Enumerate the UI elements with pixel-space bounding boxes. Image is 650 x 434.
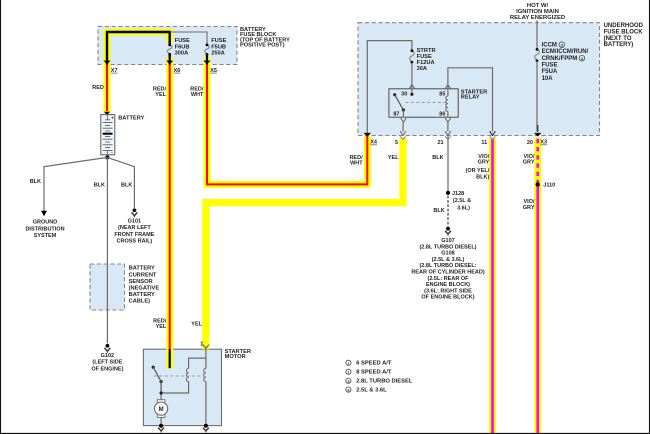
svg-text:300A: 300A <box>175 51 189 57</box>
wire fuse F5UB bottom black stub <box>206 55 208 65</box>
svg-text:X6: X6 <box>174 68 181 74</box>
svg-text:J128: J128 <box>452 191 464 197</box>
wire VIO/GRY stripe J110 down <box>536 183 539 434</box>
legend note 3: 2.8L turbo diesel <box>346 378 351 383</box>
svg-text:(OR YEL/: (OR YEL/ <box>466 168 490 174</box>
svg-text:REAR OF CYLINDER HEAD): REAR OF CYLINDER HEAD) <box>411 270 485 276</box>
battery terminal cap <box>104 112 110 115</box>
svg-text:BLK: BLK <box>30 179 41 185</box>
svg-text:2: 2 <box>347 371 349 375</box>
pin 85 chevron <box>445 85 451 89</box>
svg-text:J110: J110 <box>543 182 555 188</box>
ground G107 <box>446 227 450 231</box>
svg-text:OF ENGINE): OF ENGINE) <box>91 366 123 372</box>
svg-text:30: 30 <box>401 91 407 97</box>
legend note 4: 2.5L & 3.6L <box>346 387 351 392</box>
svg-text:1: 1 <box>347 362 349 366</box>
svg-text:BATTERY: BATTERY <box>118 115 144 121</box>
fuse F5UA 10A <box>535 49 540 59</box>
svg-text:X3: X3 <box>540 140 547 146</box>
svg-text:(2.5L &: (2.5L & <box>453 198 471 204</box>
svg-text:F5UA: F5UA <box>542 69 558 75</box>
svg-text:20: 20 <box>527 140 533 146</box>
pin 30 chevron <box>409 85 415 89</box>
wire 85 to terminal 11 <box>448 68 493 132</box>
pin 86 chevron <box>445 118 451 122</box>
relay box <box>389 89 458 117</box>
svg-text:BATTERY: BATTERY <box>129 266 155 272</box>
svg-text:YEL: YEL <box>156 324 167 330</box>
svg-text:X5: X5 <box>210 68 217 74</box>
svg-text:SENSOR: SENSOR <box>129 279 153 285</box>
svg-text:10A: 10A <box>542 76 554 82</box>
svg-text:250A: 250A <box>211 51 225 57</box>
terminal X5 arrow <box>204 61 211 65</box>
svg-text:1: 1 <box>200 341 203 347</box>
svg-text:(NEAR LEFT: (NEAR LEFT <box>118 225 151 231</box>
svg-text:30A: 30A <box>417 66 427 72</box>
wire BLK battery to sensor to G102 <box>106 157 108 343</box>
terminal 11 lower chevron <box>490 136 496 139</box>
svg-text:BLK: BLK <box>433 208 444 214</box>
svg-text:86: 86 <box>439 112 445 118</box>
terminal X6 arrow <box>166 61 173 65</box>
svg-text:BATTERY): BATTERY) <box>604 42 634 48</box>
ground G101 <box>133 208 137 212</box>
svg-text:GROUND: GROUND <box>33 220 57 226</box>
svg-text:X4: X4 <box>370 140 378 146</box>
svg-text:YEL: YEL <box>191 322 202 328</box>
svg-text:(2.5L & 3.6L): (2.5L & 3.6L) <box>432 257 465 263</box>
starter motor box <box>143 349 221 425</box>
coil hold-in <box>204 368 206 381</box>
svg-text:CROSS RAIL): CROSS RAIL) <box>117 238 153 244</box>
wire fuse to X3 <box>536 61 538 132</box>
svg-text:(2.5L: REAR OF: (2.5L: REAR OF <box>428 276 470 282</box>
fuse F12UA 30A <box>410 51 415 61</box>
svg-text:F6UB: F6UB <box>175 44 190 50</box>
svg-text:8 SPEED A/T: 8 SPEED A/T <box>356 370 392 376</box>
wire fuse F5UB top thin feed <box>170 32 207 44</box>
terminal X7 arrow <box>104 61 111 65</box>
node pin 30 <box>411 89 413 95</box>
svg-text:ENGINE BLOCK): ENGINE BLOCK) <box>426 282 470 288</box>
ground starter motor right <box>204 424 208 428</box>
svg-text:G101: G101 <box>128 219 141 225</box>
svg-text:FUSE: FUSE <box>175 38 190 44</box>
svg-text:G102: G102 <box>101 353 114 359</box>
wire VIO/GRY terminal 20 band <box>534 138 541 434</box>
svg-text:FUSE: FUSE <box>211 38 226 44</box>
node J128 <box>446 191 450 195</box>
wire thick black in battery fuse block <box>107 32 170 65</box>
legend note 2: 8 speed A/T <box>346 369 351 374</box>
svg-text:BLK: BLK <box>432 155 443 161</box>
svg-text:5: 5 <box>395 140 398 146</box>
svg-text:3: 3 <box>347 380 349 384</box>
fuse F5UB 250A <box>205 45 210 53</box>
wire RED/YEL black stub in starter box <box>169 349 171 368</box>
svg-text:CURRENT: CURRENT <box>129 272 157 278</box>
svg-text:RELAY: RELAY <box>461 95 480 101</box>
svg-text:2.8L TURBO DIESEL: 2.8L TURBO DIESEL <box>356 379 413 385</box>
svg-text:GRY: GRY <box>523 160 535 166</box>
terminal 5 chevron <box>400 131 406 135</box>
terminal 21 chevron <box>445 131 451 135</box>
terminal 5 lower chevron <box>400 136 406 139</box>
legend note 1: 6 speed A/T <box>346 360 351 365</box>
wire BLK to ground distribution <box>44 157 107 211</box>
svg-text:BATTERY: BATTERY <box>129 292 155 298</box>
svg-text:2.5L & 3.6L: 2.5L & 3.6L <box>356 388 387 394</box>
svg-text:BLK: BLK <box>94 183 105 189</box>
wire BLK terminal 21 down <box>447 136 449 192</box>
svg-text:FRONT FRAME: FRONT FRAME <box>114 232 154 238</box>
svg-text:RED: RED <box>92 85 104 91</box>
battery B1 <box>101 115 115 155</box>
svg-text:ICCM: ICCM <box>542 42 557 48</box>
svg-text:POSITIVE POST): POSITIVE POST) <box>240 43 285 49</box>
starter feed arrow into box <box>203 345 209 349</box>
svg-text:STRTR: STRTR <box>417 48 436 54</box>
wire BLK to G101 <box>107 157 134 208</box>
wire YEL highlight band <box>206 138 403 349</box>
coil relay <box>447 89 449 118</box>
svg-text:CABLE): CABLE) <box>129 299 151 305</box>
svg-text:YEL: YEL <box>155 92 166 98</box>
svg-text:X7: X7 <box>111 68 118 74</box>
svg-text:FUSE BLOCK: FUSE BLOCK <box>604 30 644 36</box>
svg-text:(NEXT TO: (NEXT TO <box>604 36 632 42</box>
motor M <box>157 400 165 403</box>
wire VIO/GRY stripe terminal 11 <box>491 139 494 434</box>
svg-text:6 SPEED A/T: 6 SPEED A/T <box>356 361 392 367</box>
svg-text:RELAY ENERGIZED: RELAY ENERGIZED <box>510 15 565 21</box>
dashed relay link <box>406 101 447 103</box>
svg-text:UNDERHOOD: UNDERHOOD <box>604 23 644 29</box>
wire fuse to relay 30 <box>411 62 413 88</box>
svg-text:YEL: YEL <box>388 155 399 161</box>
svg-text:FUSE: FUSE <box>542 63 558 69</box>
wire VIO/GRY terminal 11 band <box>489 138 496 434</box>
svg-text:OF ENGINE BLOCK): OF ENGINE BLOCK) <box>421 295 474 301</box>
wire 86 to terminal 21 <box>447 122 449 132</box>
terminal 21 lower chevron <box>445 136 451 139</box>
coil pull-in <box>186 368 188 381</box>
svg-text:GRY: GRY <box>478 160 490 166</box>
svg-text:F12UA: F12UA <box>417 60 435 66</box>
battery current sensor box <box>90 264 125 310</box>
wire BLK dashed to G107 <box>447 196 449 227</box>
svg-text:WHT: WHT <box>191 92 204 98</box>
svg-text:11: 11 <box>481 140 487 146</box>
arrow ground distribution <box>41 211 47 216</box>
battery fuse block box <box>98 27 237 65</box>
svg-text:FUSE: FUSE <box>417 54 432 60</box>
ground G102 <box>106 344 110 348</box>
svg-text:21: 21 <box>437 140 443 146</box>
wire RED/YEL stripe (X6 to starter) <box>169 64 171 349</box>
svg-text:(LEFT SIDE: (LEFT SIDE <box>92 360 122 366</box>
node battery negative junction <box>105 155 109 159</box>
switch starter solenoid contacts <box>152 366 155 369</box>
svg-text:F5UB: F5UB <box>211 44 226 50</box>
wire VIO/GRY dashed stripe terminal 20 to J110 <box>536 139 539 183</box>
ground starter motor left <box>159 424 163 428</box>
wire RED/WHT stripe (X5 to X4) <box>207 64 367 184</box>
svg-text:BLK: BLK <box>121 183 132 189</box>
wire fuse F6UB bottom black stub <box>169 55 171 65</box>
wire solenoid feed <box>161 349 206 426</box>
svg-text:WHT: WHT <box>350 161 363 167</box>
svg-text:CRNK/FPPM: CRNK/FPPM <box>542 56 578 62</box>
svg-text:G108: G108 <box>441 251 454 257</box>
svg-text:+: + <box>111 115 114 120</box>
terminal X3 arrow <box>534 133 541 137</box>
pin 87 chevron <box>401 118 407 122</box>
svg-text:MOTOR: MOTOR <box>225 354 246 360</box>
svg-text:3.6L): 3.6L) <box>457 205 470 211</box>
svg-text:(2.8L TURBO DIESEL:: (2.8L TURBO DIESEL: <box>419 263 476 269</box>
terminal 11 chevron <box>490 131 496 135</box>
wire 87 to terminal 5 <box>402 122 404 132</box>
svg-text:(2.8L TURBO DIESEL): (2.8L TURBO DIESEL) <box>419 244 476 250</box>
node J110 <box>536 182 540 186</box>
underhood fuse block box <box>358 23 600 136</box>
svg-text:ECM/ICCM/RUN/: ECM/ICCM/RUN/ <box>542 49 589 55</box>
svg-text:M: M <box>159 407 164 413</box>
svg-text:85: 85 <box>439 91 445 97</box>
wire RED/WHT highlight band <box>207 57 367 184</box>
svg-text:SYSTEM: SYSTEM <box>34 233 57 239</box>
svg-text:(NEGATIVE: (NEGATIVE <box>129 286 160 292</box>
wire X4 to STRTR fuse <box>367 41 412 136</box>
svg-text:87: 87 <box>393 112 399 118</box>
svg-text:G107: G107 <box>441 238 454 244</box>
svg-text:DISTRIBUTION: DISTRIBUTION <box>25 226 64 232</box>
wire header feed <box>536 20 538 49</box>
wire RED stripe (X7 to battery) <box>106 64 108 111</box>
terminal X4 arrow <box>364 133 371 137</box>
svg-text:GRY: GRY <box>523 205 535 211</box>
svg-text:(3.6L: RIGHT SIDE: (3.6L: RIGHT SIDE <box>424 288 472 294</box>
switch relay <box>393 93 396 96</box>
fuse F6UB 300A <box>167 45 172 53</box>
dashed actuator link <box>154 375 205 377</box>
svg-text:BLK): BLK) <box>476 174 489 180</box>
wire RED battery feed highlight band <box>107 32 170 368</box>
